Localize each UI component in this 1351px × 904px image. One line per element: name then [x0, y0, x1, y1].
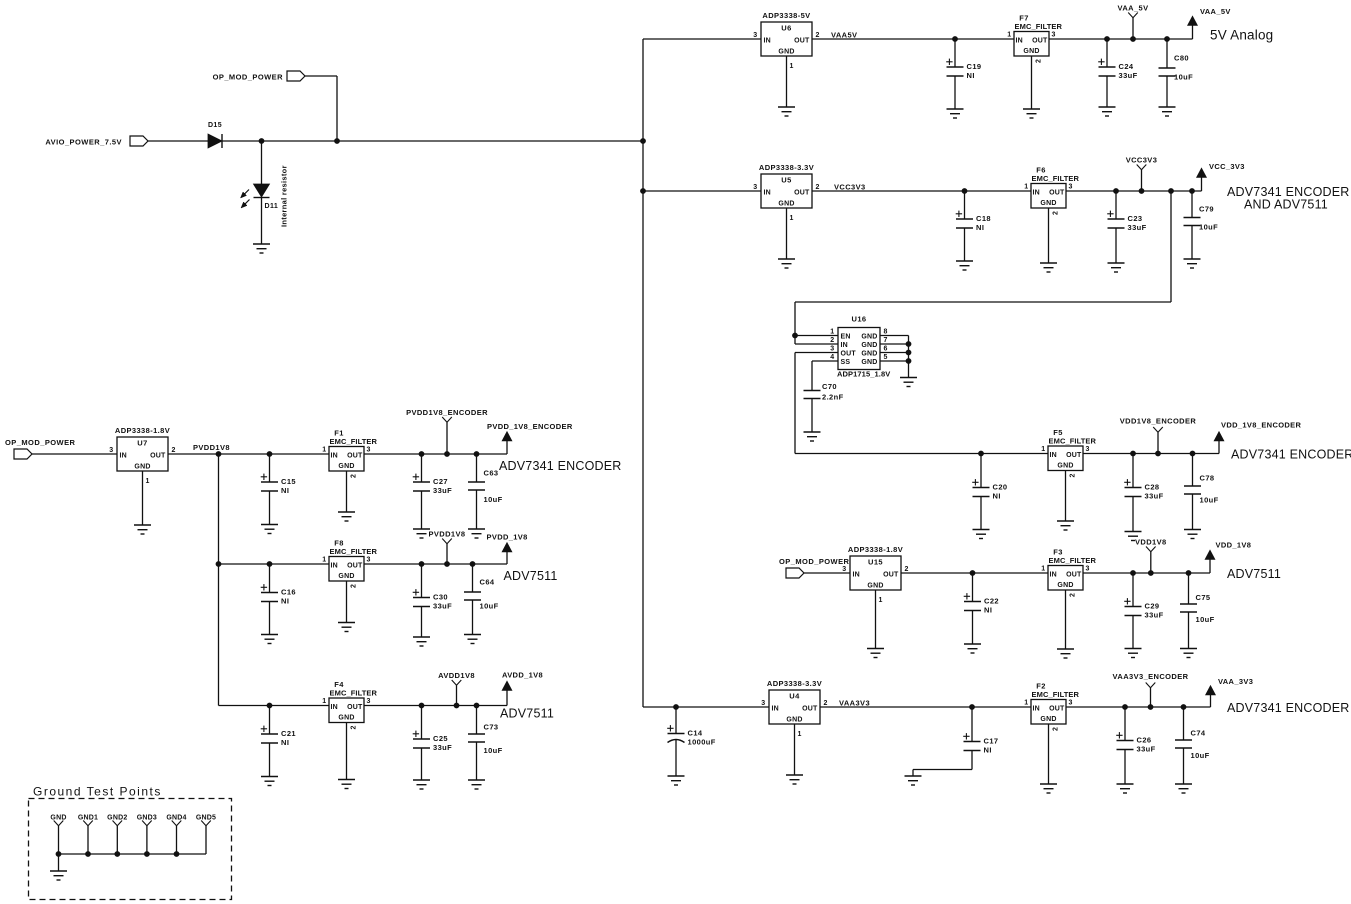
svg-text:5V Analog: 5V Analog	[1210, 28, 1273, 43]
svg-text:33uF: 33uF	[1128, 223, 1147, 232]
svg-text:1: 1	[1041, 566, 1045, 573]
svg-text:PVDD1V8_ENCODER: PVDD1V8_ENCODER	[406, 408, 488, 417]
svg-text:10uF: 10uF	[480, 602, 499, 611]
wire U16 OUT pin 3	[795, 352, 838, 354]
capacitor C30	[413, 561, 452, 637]
svg-text:GND: GND	[861, 351, 877, 358]
svg-text:U6: U6	[781, 24, 791, 33]
wire PVDD1V8 trunk corner to F4	[219, 705, 330, 707]
svg-text:C14: C14	[688, 729, 703, 738]
svg-text:VAA5V: VAA5V	[831, 31, 857, 40]
filter F5 EMC_FILTER	[1041, 428, 1096, 471]
svg-text:GND: GND	[861, 334, 877, 341]
svg-text:C29: C29	[1145, 602, 1160, 611]
wire main 7.5V rail	[222, 140, 643, 142]
svg-text:ADP3338-1.8V: ADP3338-1.8V	[115, 426, 170, 435]
svg-text:3: 3	[753, 184, 757, 191]
ground of C18	[956, 261, 973, 270]
svg-text:C20: C20	[993, 483, 1008, 492]
svg-text:C19: C19	[967, 62, 982, 71]
power arrow VCC_3V3	[1197, 162, 1245, 191]
capacitor C63	[468, 451, 503, 529]
svg-text:C26: C26	[1137, 736, 1152, 745]
svg-text:GND: GND	[1040, 200, 1056, 207]
svg-text:2: 2	[830, 337, 834, 344]
svg-text:EMC_FILTER: EMC_FILTER	[330, 547, 378, 556]
wire trunk to U4 IN	[643, 706, 769, 708]
capacitor C19	[946, 36, 981, 109]
wire U16 SS pin 4	[812, 360, 838, 362]
svg-text:EMC_FILTER: EMC_FILTER	[330, 437, 378, 446]
filter F7 EMC_FILTER	[1007, 14, 1062, 57]
wire U4 OUT net VAA3V3	[820, 706, 1031, 708]
svg-text:NI: NI	[976, 223, 984, 232]
svg-text:VAA_5V: VAA_5V	[1200, 7, 1231, 16]
svg-text:IN: IN	[120, 453, 127, 460]
svg-text:GND: GND	[1023, 48, 1039, 55]
filter F4 EMC_FILTER	[322, 680, 377, 723]
svg-text:U15: U15	[868, 558, 883, 567]
capacitor C26	[1116, 704, 1155, 784]
wire down to U16 IN	[794, 302, 796, 344]
svg-text:C80: C80	[1174, 54, 1189, 63]
filter F8 EMC_FILTER	[322, 539, 377, 582]
ground of C64	[464, 635, 481, 644]
svg-text:33uF: 33uF	[1145, 611, 1164, 620]
svg-text:OUT: OUT	[802, 706, 818, 713]
svg-text:33uF: 33uF	[433, 486, 452, 495]
junction GND1 on bus	[85, 851, 91, 857]
svg-text:IN: IN	[853, 572, 860, 579]
ground of U5	[778, 259, 795, 268]
power arrow VDD_1V8_ENCODER	[1214, 421, 1302, 454]
svg-text:ADP1715_1.8V: ADP1715_1.8V	[837, 370, 890, 379]
ground of C75	[1180, 649, 1197, 658]
regulator U5 ADP3338-3.3V	[753, 163, 820, 208]
svg-text:U5: U5	[781, 176, 791, 185]
svg-text:3: 3	[367, 447, 371, 454]
svg-text:IN: IN	[331, 453, 338, 460]
junction pin5 gnd	[906, 358, 912, 364]
svg-text:GND: GND	[338, 715, 354, 722]
svg-text:2: 2	[172, 447, 176, 454]
ground of C24	[1099, 107, 1116, 116]
capacitor C17	[913, 704, 998, 776]
U6 pin 1 (GND) wire	[787, 56, 794, 107]
ground of C70	[804, 432, 821, 441]
net tap VAA3V3_ENCODER	[1113, 672, 1189, 710]
svg-text:10uF: 10uF	[1199, 223, 1218, 232]
svg-text:PVDD_1V8: PVDD_1V8	[487, 533, 528, 542]
svg-text:1: 1	[879, 597, 883, 604]
svg-text:PVDD1V8: PVDD1V8	[429, 530, 466, 539]
power arrow VAA_3V3	[1206, 677, 1254, 707]
wire to U16 pin 1 EN	[795, 335, 838, 337]
ground of C23	[1108, 263, 1125, 272]
svg-text:NI: NI	[984, 746, 992, 755]
svg-text:33uF: 33uF	[1137, 745, 1156, 754]
ground of C29	[1125, 649, 1142, 658]
svg-text:33uF: 33uF	[433, 602, 452, 611]
capacitor C25	[413, 703, 452, 780]
ground of C74	[1175, 784, 1192, 793]
filter F3 EMC_FILTER	[1041, 548, 1096, 591]
connector OP_MOD_POWER (top)	[213, 71, 305, 82]
svg-text:3: 3	[1052, 32, 1056, 39]
node PVDD1V8 (trunk to F8/F4)	[216, 451, 222, 457]
wire F4 OUT to AVDD_1V8 rail	[364, 705, 507, 707]
svg-text:IN: IN	[1033, 190, 1040, 197]
ground of U6	[778, 107, 795, 116]
svg-text:3: 3	[109, 447, 113, 454]
ground of F7	[1023, 109, 1040, 118]
svg-text:IN: IN	[331, 563, 338, 570]
wire U16 pin 7 GND	[880, 343, 909, 345]
svg-text:2: 2	[1070, 593, 1077, 597]
test point GND4	[166, 815, 186, 855]
svg-text:NI: NI	[967, 71, 975, 80]
power arrow PVDD_1V8	[487, 533, 528, 565]
svg-text:IN: IN	[841, 342, 848, 349]
F4 pin 2 (GND) wire	[347, 723, 358, 780]
svg-text:3: 3	[1069, 184, 1073, 191]
ground of C80	[1159, 107, 1176, 116]
svg-text:GND: GND	[867, 583, 883, 590]
svg-text:GND2: GND2	[107, 815, 127, 822]
svg-text:1: 1	[1041, 446, 1045, 453]
capacitor C22	[964, 570, 999, 644]
ground of C28	[1125, 532, 1142, 541]
ground of C15	[261, 525, 278, 534]
F1 pin 2 (GND) wire	[347, 471, 358, 512]
svg-text:ADV7511: ADV7511	[1227, 567, 1281, 581]
svg-text:10uF: 10uF	[1196, 615, 1215, 624]
svg-text:IN: IN	[1033, 706, 1040, 713]
wire F2 OUT to VAA_3V3 rail	[1066, 706, 1211, 708]
svg-text:GND4: GND4	[166, 815, 186, 822]
ground of F2	[1040, 784, 1057, 793]
wire VCC3V3 to U16 area	[795, 301, 1171, 303]
svg-text:6: 6	[884, 346, 888, 353]
wire to F8 IN	[219, 563, 330, 565]
svg-text:2: 2	[1036, 59, 1043, 63]
svg-text:VAA_5V: VAA_5V	[1117, 4, 1148, 13]
capacitor C14	[667, 704, 716, 776]
svg-text:2: 2	[1070, 473, 1077, 477]
ground of C27	[413, 529, 430, 538]
svg-text:C17: C17	[984, 737, 999, 746]
svg-text:OUT: OUT	[883, 572, 899, 579]
connector J? AVIO_POWER_7.5V input	[45, 136, 148, 147]
svg-text:C64: C64	[480, 578, 495, 587]
svg-text:2: 2	[905, 566, 909, 573]
junction EN/IN tie	[792, 333, 798, 339]
test point GND	[50, 815, 66, 855]
wire U16 OUT down	[794, 353, 796, 454]
wire F7 OUT to VAA_5V rail	[1049, 38, 1193, 40]
svg-text:C27: C27	[433, 477, 448, 486]
svg-text:GND: GND	[1057, 582, 1073, 589]
svg-text:OP_MOD_POWER: OP_MOD_POWER	[5, 438, 76, 447]
capacitor C23	[1107, 188, 1146, 263]
junction OP_MOD_POWER to rail	[334, 138, 340, 144]
wire U6 OUT net VAA5V	[812, 38, 1014, 40]
svg-text:2: 2	[824, 700, 828, 707]
svg-text:GND: GND	[338, 463, 354, 470]
svg-text:ADP3338-3.3V: ADP3338-3.3V	[759, 163, 814, 172]
svg-text:Ground Test Points: Ground Test Points	[33, 785, 162, 799]
svg-text:OUT: OUT	[794, 38, 810, 45]
ground of F1	[338, 512, 355, 521]
ground test points dashed box	[29, 799, 232, 900]
svg-text:GND: GND	[338, 573, 354, 580]
junction pin6 gnd	[906, 350, 912, 356]
svg-text:3: 3	[753, 32, 757, 39]
svg-text:GND1: GND1	[78, 815, 98, 822]
svg-text:GND: GND	[778, 49, 794, 56]
wire F6 OUT to VCC_3V3 rail	[1066, 190, 1202, 192]
regulator U4 ADP3338-3.3V	[761, 679, 828, 724]
svg-text:NI: NI	[984, 606, 992, 615]
svg-text:8: 8	[884, 329, 888, 336]
svg-text:GND5: GND5	[196, 815, 216, 822]
regulator U7 ADP3338-1.8V	[109, 426, 176, 471]
svg-text:C63: C63	[484, 469, 499, 478]
svg-text:1: 1	[1024, 184, 1028, 191]
svg-text:D11: D11	[265, 203, 279, 210]
test point GND5	[196, 815, 216, 855]
F8 pin 2 (GND) wire	[347, 581, 358, 623]
svg-text:C22: C22	[984, 597, 999, 606]
ground of D11	[253, 244, 270, 253]
connector OP_MOD_POWER (U15)	[779, 557, 850, 578]
svg-text:U7: U7	[137, 439, 147, 448]
svg-text:10uF: 10uF	[1174, 73, 1193, 82]
ground of F6	[1040, 263, 1057, 272]
net tap VDD1V8	[1135, 538, 1167, 576]
wire trunk to U6 IN	[643, 38, 761, 40]
svg-text:VDD1V8: VDD1V8	[1135, 538, 1167, 547]
wire F8 OUT to PVDD_1V8 rail	[364, 563, 507, 565]
capacitor C27	[413, 451, 452, 529]
svg-text:OUT: OUT	[347, 563, 363, 570]
svg-text:GND: GND	[1057, 463, 1073, 470]
svg-text:C75: C75	[1196, 593, 1211, 602]
capacitor C28	[1124, 451, 1163, 532]
svg-text:C25: C25	[433, 734, 448, 743]
F5 pin 2 (GND) wire	[1066, 471, 1077, 522]
svg-text:GND: GND	[1040, 716, 1056, 723]
regulator U6 ADP3338-5V	[753, 11, 820, 56]
power arrow VAA_5V	[1188, 7, 1231, 39]
svg-text:1: 1	[1007, 32, 1011, 39]
net tap VDD1V8_ENCODER	[1120, 417, 1197, 457]
test point GND3	[137, 815, 157, 855]
wire U16 pin 5 GND	[880, 360, 909, 362]
wire F1 OUT to PVDD_1V8_ENCODER rail	[364, 453, 507, 455]
power arrow VDD_1V8	[1205, 541, 1251, 574]
svg-text:PVDD1V8: PVDD1V8	[193, 443, 230, 452]
svg-text:2.2nF: 2.2nF	[822, 393, 844, 402]
LED D11	[241, 184, 279, 210]
junction GND2 on bus	[114, 851, 120, 857]
ground of C79	[1184, 259, 1201, 268]
ground of F5	[1057, 521, 1074, 530]
wire OP_MOD_POWER to U15 IN	[804, 572, 850, 574]
ground of F8	[338, 623, 355, 632]
svg-text:EMC_FILTER: EMC_FILTER	[1049, 437, 1097, 446]
svg-text:GND: GND	[861, 342, 877, 349]
power arrow PVDD_1V8_ENCODER	[487, 422, 573, 454]
svg-text:AVDD1V8: AVDD1V8	[438, 671, 475, 680]
svg-text:3: 3	[830, 346, 834, 353]
svg-text:OUT: OUT	[1066, 572, 1082, 579]
junction to U16 feed	[1168, 188, 1174, 194]
ground of U15	[867, 649, 884, 658]
svg-text:2: 2	[1053, 211, 1060, 215]
net tap VAA_5V	[1117, 4, 1148, 42]
U5 pin 1 (GND) wire	[787, 208, 794, 259]
svg-text:C78: C78	[1200, 474, 1215, 483]
wire AVIO input to D15 anode	[148, 140, 208, 142]
svg-text:1: 1	[790, 215, 794, 222]
svg-text:IN: IN	[1050, 572, 1057, 579]
svg-text:NI: NI	[281, 486, 289, 495]
capacitor C70	[804, 382, 844, 432]
svg-text:OUT: OUT	[347, 453, 363, 460]
svg-text:OUT: OUT	[347, 704, 363, 711]
ground of C78	[1184, 530, 1201, 539]
svg-text:C79: C79	[1199, 205, 1214, 214]
net tap PVDD1V8_ENCODER	[406, 408, 488, 457]
svg-text:GND3: GND3	[137, 815, 157, 822]
ground of C26	[1117, 784, 1134, 793]
svg-text:IN: IN	[1050, 452, 1057, 459]
svg-text:IN: IN	[331, 704, 338, 711]
svg-text:4: 4	[830, 354, 834, 361]
ground of C73	[468, 780, 485, 789]
svg-text:C15: C15	[281, 477, 296, 486]
svg-text:VAA3V3_ENCODER: VAA3V3_ENCODER	[1113, 672, 1189, 681]
svg-text:U4: U4	[789, 692, 800, 701]
svg-text:SS: SS	[841, 359, 851, 366]
svg-text:C16: C16	[281, 588, 296, 597]
svg-text:VAA_3V3: VAA_3V3	[1218, 677, 1253, 686]
svg-text:VCC3V3: VCC3V3	[1126, 156, 1158, 165]
F6 pin 2 (GND) wire	[1049, 208, 1060, 263]
ground of C30	[413, 637, 430, 646]
svg-text:1: 1	[798, 731, 802, 738]
capacitor C74	[1175, 704, 1210, 784]
svg-text:C28: C28	[1145, 483, 1160, 492]
ground of C25	[413, 780, 430, 789]
capacitor C15	[261, 451, 296, 524]
svg-text:ADP3338-1.8V: ADP3338-1.8V	[848, 545, 903, 554]
svg-text:VCC3V3: VCC3V3	[834, 183, 866, 192]
regulator U15 ADP3338-1.8V	[842, 545, 909, 590]
filter F6 EMC_FILTER	[1024, 166, 1079, 209]
svg-text:OUT: OUT	[150, 453, 166, 460]
capacitor C29	[1124, 570, 1163, 648]
wire U7 OUT net PVDD1V8	[168, 453, 329, 455]
wire from OP_MOD_POWER connector	[305, 75, 337, 77]
junction PVDD1V8 trunk / F8 row	[216, 561, 222, 567]
ground of C17	[905, 776, 922, 785]
svg-text:3: 3	[367, 557, 371, 564]
svg-text:1: 1	[1024, 700, 1028, 707]
svg-text:OUT: OUT	[1032, 38, 1048, 45]
svg-text:GND: GND	[778, 201, 794, 208]
svg-text:33uF: 33uF	[433, 743, 452, 752]
wire OP_MOD_POWER down to rail	[336, 76, 338, 141]
svg-text:ADV7341 ENCODER: ADV7341 ENCODER	[1231, 448, 1351, 462]
svg-text:IN: IN	[764, 38, 771, 45]
ground of C19	[947, 109, 964, 118]
ground of C63	[468, 529, 485, 538]
svg-text:2: 2	[351, 474, 358, 478]
capacitor C24	[1098, 36, 1137, 107]
svg-text:3: 3	[761, 700, 765, 707]
svg-text:OUT: OUT	[794, 190, 810, 197]
junction trunk / 3.3V row	[640, 188, 646, 194]
svg-text:GND: GND	[861, 359, 877, 366]
svg-text:1: 1	[322, 557, 326, 564]
connector OP_MOD_POWER (U7)	[5, 438, 76, 459]
svg-text:33uF: 33uF	[1145, 492, 1164, 501]
svg-text:10uF: 10uF	[484, 495, 503, 504]
svg-text:NI: NI	[993, 492, 1001, 501]
ground of C22	[964, 644, 981, 653]
svg-text:3: 3	[1086, 446, 1090, 453]
svg-text:IN: IN	[772, 706, 779, 713]
svg-text:IN: IN	[764, 190, 771, 197]
wire U16 GND bus	[908, 336, 910, 378]
svg-text:OUT: OUT	[1049, 190, 1065, 197]
svg-text:3: 3	[1086, 566, 1090, 573]
capacitor C18	[956, 188, 991, 261]
svg-text:VDD1V8_ENCODER: VDD1V8_ENCODER	[1120, 417, 1197, 426]
svg-text:1: 1	[790, 63, 794, 70]
wire U16 OUT to F5	[795, 453, 1048, 455]
ground of C16	[261, 635, 278, 644]
svg-text:2: 2	[816, 32, 820, 39]
ground of C20	[973, 530, 990, 539]
ground of U16	[900, 378, 917, 387]
ground of F4	[338, 780, 355, 789]
F2 pin 2 (GND) wire	[1049, 724, 1060, 784]
junction GND3 on bus	[144, 851, 150, 857]
U4 pin 1 (GND) wire	[795, 724, 802, 775]
U15 pin 1 (GND) wire	[876, 590, 883, 649]
ground of U7	[134, 525, 151, 534]
svg-text:OP_MOD_POWER: OP_MOD_POWER	[779, 557, 850, 566]
svg-text:VDD_1V8: VDD_1V8	[1216, 541, 1252, 550]
svg-text:10uF: 10uF	[484, 746, 503, 755]
junction at D11 branch	[259, 138, 265, 144]
ground of U4	[786, 775, 803, 784]
svg-text:GND: GND	[134, 464, 150, 471]
svg-text:EMC_FILTER: EMC_FILTER	[330, 689, 378, 698]
svg-text:EN: EN	[841, 334, 851, 341]
label ADV7341 ENCODER AND ADV7511	[1227, 185, 1350, 212]
svg-text:C30: C30	[433, 593, 448, 602]
ground of F3	[1057, 649, 1074, 658]
svg-text:10uF: 10uF	[1200, 496, 1219, 505]
wire F5 OUT to VDD_1V8_ENCODER rail	[1083, 453, 1219, 455]
svg-text:ADV7511: ADV7511	[504, 569, 558, 583]
svg-text:ADP3338-3.3V: ADP3338-3.3V	[767, 679, 822, 688]
net tap AVDD1V8	[438, 671, 475, 708]
